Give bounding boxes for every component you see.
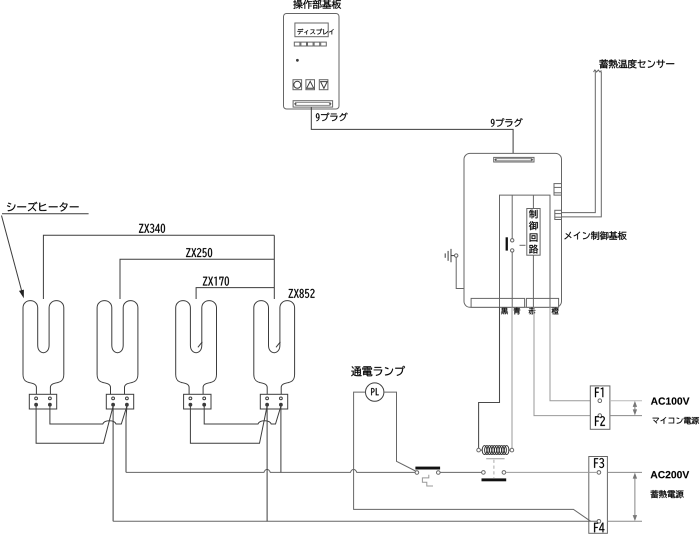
label 蓄熱温度センサー xyxy=(599,59,674,68)
dimension arrow AC200V xyxy=(634,474,636,519)
label 蓄熱電源 xyxy=(651,490,684,498)
terminal F4 xyxy=(597,520,601,524)
wire H3 right to H4 right (with hop) xyxy=(204,406,281,424)
wire control box top xyxy=(532,195,534,208)
relay coil terminal left xyxy=(477,448,481,452)
inner circuit block outline xyxy=(500,195,551,307)
label 黒 xyxy=(501,308,508,315)
lamp PL xyxy=(366,383,384,401)
wire orange (橙) to F1 xyxy=(550,307,598,400)
relay contact terminal right xyxy=(502,471,506,475)
bottom connector bar B xyxy=(526,298,558,307)
terminal F3 xyxy=(597,471,601,475)
label AC100V xyxy=(651,397,690,404)
terminal circle P1 xyxy=(511,239,514,242)
wire control box bottom (red net) xyxy=(532,255,534,307)
label F4 xyxy=(594,523,604,533)
button up xyxy=(306,80,315,90)
switch spring symbol xyxy=(422,475,433,486)
wire relay to F3 xyxy=(506,471,597,473)
wire live bus (with hops) to switch xyxy=(126,469,415,472)
ground terminal circle xyxy=(455,254,458,257)
heater ZX340 element H1 xyxy=(23,301,64,395)
wire blue (青) to relay coil xyxy=(511,307,513,448)
relay coil terminal right xyxy=(510,448,514,452)
main board top connector CN2 xyxy=(494,157,534,162)
label 操作部基板 xyxy=(293,0,341,9)
terminal F1 xyxy=(598,399,602,403)
dash to control box xyxy=(520,244,526,246)
label ZX250 xyxy=(186,248,212,257)
terminal circle P2 xyxy=(511,249,514,252)
ground symbol xyxy=(444,253,446,257)
wire F1 right xyxy=(610,400,642,402)
bracket ZX340 xyxy=(43,235,274,299)
wire H3 left to H4 left xyxy=(190,406,267,443)
wire H4 left down (crosses bus) xyxy=(266,406,268,521)
dimension arrow AC100V xyxy=(634,403,636,414)
button down xyxy=(319,80,328,90)
wire H4 right down to live bus xyxy=(280,406,282,472)
right edge connector CN3 xyxy=(554,184,562,196)
heater H3 xyxy=(176,301,217,395)
relay contact terminal left xyxy=(482,471,486,475)
switch SW1 terminal right xyxy=(437,471,441,475)
wire F2 right xyxy=(610,415,642,417)
label F1 xyxy=(595,388,603,398)
relay mechanical link xyxy=(493,460,495,478)
label メイン制御基板 xyxy=(564,231,626,240)
label 9プラグ lower xyxy=(491,118,523,127)
internal node line (blue net) xyxy=(511,195,513,239)
wire black (黒) to relay coil xyxy=(479,307,500,448)
relay armature xyxy=(486,458,504,460)
wire PL left to F4 line xyxy=(354,392,591,521)
label 赤 xyxy=(529,308,536,315)
display box xyxy=(295,23,328,37)
wire F4 right xyxy=(607,520,642,522)
button circle xyxy=(293,80,302,90)
label シーズヒーター xyxy=(7,202,79,212)
label AC200V xyxy=(651,471,690,478)
bracket ZX250 xyxy=(120,259,274,299)
indicator squares xyxy=(294,42,300,46)
LED dot xyxy=(297,59,299,61)
op-board U2 outline xyxy=(284,14,340,110)
switch SW1 terminal left xyxy=(415,471,419,475)
terminal F2 xyxy=(598,414,602,418)
label マイコン電源 xyxy=(653,417,699,424)
bottom connector bar A xyxy=(471,298,524,307)
main board U1 outline xyxy=(464,153,562,307)
label F2 xyxy=(595,416,605,426)
switch SW1 contact bar xyxy=(415,467,440,470)
wire PL right to switch xyxy=(384,392,416,471)
label PL xyxy=(371,388,379,395)
leader arrow to heater H1 xyxy=(2,216,22,292)
heater H2 xyxy=(97,301,138,395)
control circuit box 制御回路 xyxy=(527,209,540,256)
sensor TH1 lead pair xyxy=(594,70,602,72)
label 制御回路 vertical xyxy=(529,210,537,219)
bracket ZX170 xyxy=(196,288,274,299)
fuse box F1-F2 xyxy=(590,386,610,429)
wire H2 left down to AC200V return xyxy=(112,406,114,521)
label ZX170 xyxy=(203,277,229,286)
heater ZX852 element H4 xyxy=(254,301,295,395)
wire switch to relay contact xyxy=(440,471,482,473)
wire red (赤) to F2 xyxy=(534,307,598,415)
underline xyxy=(2,213,89,215)
label F3 xyxy=(594,458,604,468)
label 橙 xyxy=(552,308,559,315)
wire AC200V return bus to F4 xyxy=(113,520,597,522)
label ZX340 xyxy=(139,224,165,233)
wire 9plug cable xyxy=(311,107,513,158)
label ZX852 xyxy=(289,289,315,298)
bracket common drop to H4 xyxy=(273,235,275,299)
label 青 xyxy=(514,308,521,315)
right edge connector CN4 (sensor) xyxy=(555,210,562,219)
fuse box F3-F4 xyxy=(589,457,608,534)
wire H2 right down to live bus xyxy=(125,406,128,472)
op-board connector CN1 xyxy=(293,101,333,107)
label 通電ランプ xyxy=(351,366,405,376)
wire H1 right to H2 right (with hop) xyxy=(50,406,127,424)
relay coil RY1 xyxy=(480,449,482,451)
label 9プラグ upper xyxy=(316,113,348,122)
label ディスプレイ xyxy=(297,29,333,35)
relay contact bar xyxy=(482,478,507,481)
jumper bar xyxy=(506,237,508,250)
wire H1 left to H2 left xyxy=(36,406,113,443)
wire F3 right xyxy=(607,471,642,473)
wire ground to board xyxy=(456,257,464,288)
